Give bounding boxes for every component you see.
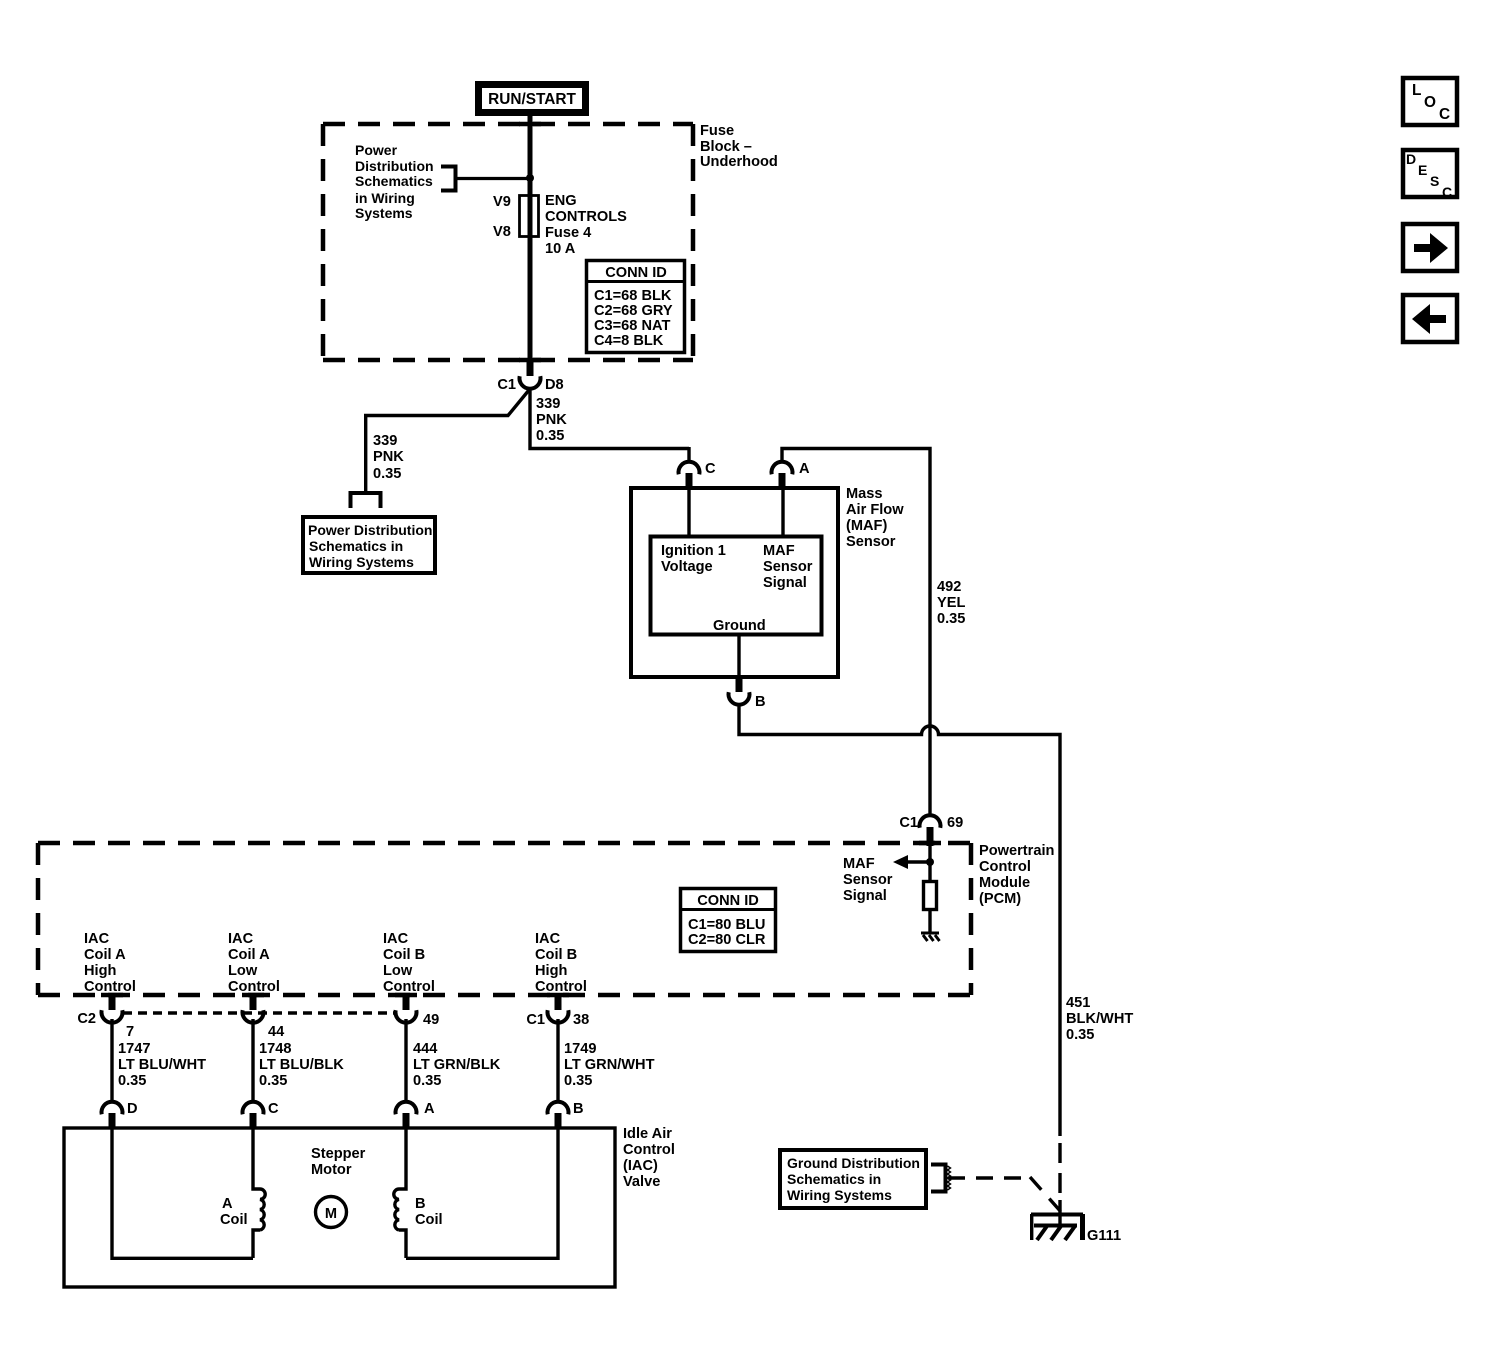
reference bracket (ground distribution): [931, 1165, 951, 1192]
signal arrow MAF Sensor Signal: [893, 855, 930, 869]
svg-text:492: 492: [937, 579, 961, 595]
connector pin A (MAF sensor): [772, 461, 810, 489]
svg-text:D: D: [1406, 151, 1416, 167]
svg-text:IAC: IAC: [84, 931, 110, 947]
svg-text:Valve: Valve: [623, 1174, 660, 1190]
svg-text:Ground Distribution: Ground Distribution: [787, 1155, 920, 1171]
reference box Power Distribution Schematics in Wiring Systems: [303, 517, 435, 573]
svg-text:Ground: Ground: [713, 618, 766, 634]
svg-text:1748: 1748: [259, 1041, 291, 1057]
svg-text:339: 339: [536, 396, 560, 412]
ground (PCM internal): [921, 933, 940, 941]
svg-text:Coil A: Coil A: [228, 947, 270, 963]
svg-text:7: 7: [126, 1024, 134, 1040]
label MAF Sensor Signal: [843, 856, 893, 904]
wire: 492 YEL from MAF pin A right and down to PCM: [782, 449, 930, 817]
MAF sensor inner block: [651, 537, 822, 635]
svg-text:IAC: IAC: [383, 931, 409, 947]
svg-text:B: B: [415, 1196, 426, 1212]
node: junction to power distribution reference: [526, 174, 534, 182]
svg-text:Control: Control: [535, 979, 587, 995]
svg-text:IAC: IAC: [228, 931, 254, 947]
svg-text:Coil B: Coil B: [383, 947, 425, 963]
reference bracket (power distribution schematics): [441, 167, 456, 191]
svg-text:B: B: [573, 1101, 584, 1117]
resistor (PCM internal): [924, 882, 937, 910]
connector pin 44 (PCM output): [243, 994, 286, 1040]
svg-text:E: E: [1418, 162, 1427, 178]
svg-text:RUN/START: RUN/START: [488, 91, 576, 108]
svg-text:MAF: MAF: [843, 856, 875, 872]
wire: 1748 LT BLU/BLK to IAC pin C: [251, 1019, 254, 1103]
destination bracket above power distribution box: [351, 493, 381, 508]
powertrain control module dashed box: [38, 843, 971, 995]
coil B (IAC stepper): [394, 1128, 443, 1258]
svg-text:Low: Low: [383, 963, 413, 979]
svg-text:Sensor: Sensor: [843, 872, 893, 888]
wire: MAF internal pin A to inner block: [781, 488, 784, 536]
svg-text:BLK/WHT: BLK/WHT: [1066, 1011, 1133, 1027]
svg-text:Wiring Systems: Wiring Systems: [787, 1187, 892, 1203]
connector pin B (IAC valve): [548, 1101, 584, 1128]
svg-text:Motor: Motor: [311, 1162, 352, 1178]
svg-text:CONN ID: CONN ID: [605, 265, 667, 281]
svg-text:Sensor: Sensor: [763, 559, 813, 575]
svg-text:Signal: Signal: [843, 888, 887, 904]
svg-text:PNK: PNK: [373, 449, 404, 465]
label 492 YEL 0.35: [937, 579, 965, 627]
svg-text:MAF: MAF: [763, 543, 795, 559]
svg-text:C: C: [705, 461, 716, 477]
svg-text:LT BLU/WHT: LT BLU/WHT: [118, 1057, 206, 1073]
svg-text:10 A: 10 A: [545, 241, 576, 257]
label 1747 LT BLU/WHT 0.35: [118, 1041, 206, 1089]
wire: IAC pin D to coil A return: [112, 1128, 253, 1258]
connector pin D (IAC valve): [102, 1101, 138, 1128]
node: MAF sensor signal junction: [926, 858, 934, 866]
wire: branch to power distribution reference bracket: [455, 177, 528, 180]
fuse block underhood dashed box: [323, 124, 693, 360]
svg-text:A: A: [799, 461, 810, 477]
svg-text:O: O: [1424, 94, 1436, 111]
svg-text:Power Distribution: Power Distribution: [308, 522, 432, 538]
wire: ignition feed from RUN/START through fuse: [528, 113, 533, 361]
connector pin B (MAF sensor): [729, 677, 766, 710]
svg-text:Control: Control: [228, 979, 280, 995]
svg-text:0.35: 0.35: [259, 1073, 287, 1089]
svg-text:451: 451: [1066, 995, 1090, 1011]
svg-text:69: 69: [947, 815, 963, 831]
label 451 BLK/WHT 0.35: [1066, 995, 1133, 1043]
label Idle Air Control (IAC) Valve: [623, 1126, 675, 1190]
svg-text:CONTROLS: CONTROLS: [545, 209, 627, 225]
svg-text:LT GRN/BLK: LT GRN/BLK: [413, 1057, 501, 1073]
svg-text:Wiring Systems: Wiring Systems: [309, 554, 414, 570]
svg-text:CONN ID: CONN ID: [697, 893, 759, 909]
svg-text:C3=68 NAT: C3=68 NAT: [594, 318, 670, 334]
svg-text:C1: C1: [497, 377, 516, 393]
IAC valve box: [64, 1128, 615, 1287]
wire: MAF internal pin C to inner block: [687, 488, 690, 536]
svg-text:Coil A: Coil A: [84, 947, 126, 963]
svg-text:0.35: 0.35: [937, 611, 965, 627]
svg-text:Low: Low: [228, 963, 258, 979]
connector C2 pin 7 (PCM output): [77, 994, 134, 1040]
wire: dash patches at stub crossings: [101, 124, 941, 995]
svg-text:Idle Air: Idle Air: [623, 1126, 672, 1142]
label IAC Coil B Low Control: [383, 931, 435, 995]
svg-text:D8: D8: [545, 377, 564, 393]
label 1749 LT GRN/WHT 0.35: [564, 1041, 655, 1089]
label IAC Coil A Low Control: [228, 931, 280, 995]
svg-text:C1: C1: [526, 1012, 545, 1028]
svg-text:C2=80 CLR: C2=80 CLR: [688, 932, 766, 948]
svg-text:IAC: IAC: [535, 931, 561, 947]
svg-text:Module: Module: [979, 875, 1030, 891]
svg-text:Powertrain: Powertrain: [979, 843, 1055, 859]
svg-text:49: 49: [423, 1012, 439, 1028]
wire: 1749 LT GRN/WHT to IAC pin B: [556, 1019, 559, 1103]
svg-text:Control: Control: [979, 859, 1031, 875]
icon back arrow: [1403, 295, 1457, 342]
wire: 444 LT GRN/BLK to IAC pin A: [404, 1019, 407, 1103]
wire: into MAF pin C: [687, 447, 690, 463]
label Powertrain Control Module (PCM): [979, 843, 1055, 907]
svg-text:C1: C1: [899, 815, 918, 831]
svg-text:Air Flow: Air Flow: [846, 502, 904, 518]
svg-text:Schematics: Schematics: [355, 173, 433, 189]
label Stepper Motor: [311, 1146, 366, 1178]
svg-text:C2=68 GRY: C2=68 GRY: [594, 303, 673, 319]
svg-text:Schematics in: Schematics in: [309, 538, 403, 554]
svg-text:M: M: [325, 1206, 337, 1222]
svg-text:(PCM): (PCM): [979, 891, 1021, 907]
svg-text:0.35: 0.35: [373, 466, 401, 482]
wire: PCM internal signal node: [928, 843, 931, 881]
label 339 PNK 0.35 (main feed): [536, 396, 567, 444]
svg-text:C: C: [268, 1101, 279, 1117]
label Mass Air Flow (MAF) Sensor: [846, 486, 904, 550]
svg-text:Coil: Coil: [415, 1212, 443, 1228]
svg-text:PNK: PNK: [536, 412, 567, 428]
svg-text:C4=8 BLK: C4=8 BLK: [594, 333, 664, 349]
MAF sensor outer box: [631, 488, 838, 677]
connector pin 49 (PCM output): [396, 994, 440, 1028]
label Fuse Block - Underhood: [700, 123, 778, 170]
svg-text:(MAF): (MAF): [846, 518, 887, 534]
svg-text:0.35: 0.35: [1066, 1027, 1094, 1043]
wire: dashed section of 451 BLK/WHT to G111: [1058, 1143, 1061, 1203]
svg-text:0.35: 0.35: [118, 1073, 146, 1089]
wire: 1747 LT BLU/WHT to IAC pin D: [110, 1019, 113, 1103]
svg-text:A: A: [222, 1196, 233, 1212]
svg-text:High: High: [84, 963, 117, 979]
connector C1 pin D8 (fuse block output): [497, 361, 563, 393]
svg-text:YEL: YEL: [937, 595, 965, 611]
svg-text:Control: Control: [623, 1142, 675, 1158]
svg-text:Underhood: Underhood: [700, 154, 778, 170]
svg-text:Coil B: Coil B: [535, 947, 577, 963]
svg-text:High: High: [535, 963, 568, 979]
svg-text:Control: Control: [84, 979, 136, 995]
fuse F4 ENG CONTROLS 10A: [520, 196, 539, 237]
svg-text:Fuse: Fuse: [700, 123, 734, 139]
svg-text:1747: 1747: [118, 1041, 150, 1057]
svg-text:0.35: 0.35: [536, 428, 564, 444]
svg-text:0.35: 0.35: [413, 1073, 441, 1089]
svg-text:C1=80 BLU: C1=80 BLU: [688, 917, 765, 933]
svg-text:Voltage: Voltage: [661, 559, 713, 575]
label 444 LT GRN/BLK 0.35: [413, 1041, 501, 1089]
svg-text:G111: G111: [1087, 1228, 1121, 1244]
svg-text:444: 444: [413, 1041, 438, 1057]
svg-text:B: B: [755, 694, 766, 710]
connector pin C (MAF sensor): [679, 461, 717, 489]
motor M (stepper): [316, 1197, 347, 1228]
wire: MAF internal ground to pin B: [737, 635, 740, 677]
svg-text:LT BLU/BLK: LT BLU/BLK: [259, 1057, 344, 1073]
svg-text:Sensor: Sensor: [846, 534, 896, 550]
icon LOC: [1403, 78, 1457, 125]
svg-text:38: 38: [573, 1012, 589, 1028]
svg-text:44: 44: [268, 1024, 285, 1040]
svg-text:V9: V9: [493, 194, 511, 210]
svg-text:Fuse 4: Fuse 4: [545, 225, 592, 241]
icon forward arrow: [1403, 224, 1457, 271]
svg-text:Signal: Signal: [763, 575, 807, 591]
wire: resistor to internal ground: [928, 910, 931, 933]
svg-text:C: C: [1442, 184, 1452, 200]
svg-text:ENG: ENG: [545, 193, 577, 209]
svg-text:A: A: [424, 1101, 435, 1117]
reference box Ground Distribution Schematics in Wiring Systems: [780, 1150, 926, 1208]
svg-text:Power: Power: [355, 142, 398, 158]
CONN ID table (PCM): [680, 889, 776, 952]
svg-text:339: 339: [373, 433, 397, 449]
svg-text:C2: C2: [77, 1011, 96, 1027]
label ENG CONTROLS Fuse 4 10 A: [545, 193, 627, 257]
svg-text:1749: 1749: [564, 1041, 596, 1057]
svg-text:C1=68 BLK: C1=68 BLK: [594, 288, 672, 304]
svg-text:V8: V8: [493, 224, 511, 240]
label Power Distribution Schematics in Wiring Systems (fuse block): [355, 142, 434, 221]
label IAC Coil B High Control: [535, 931, 587, 995]
svg-text:C: C: [1439, 106, 1450, 123]
label 1748 LT BLU/BLK 0.35: [259, 1041, 344, 1089]
svg-text:Stepper: Stepper: [311, 1146, 366, 1162]
wire: dashed lead from ground distribution to G111: [948, 1177, 1062, 1213]
power source RUN/START: [479, 85, 586, 113]
icon DESC: [1403, 150, 1457, 200]
svg-text:Distribution: Distribution: [355, 158, 434, 174]
connector link dashed line (C2 pins 7-44-49): [123, 1011, 396, 1015]
ground G111: [1031, 1200, 1083, 1240]
label 339 PNK 0.35 (branch): [373, 433, 404, 482]
coil A (IAC stepper): [220, 1128, 265, 1258]
svg-text:Coil: Coil: [220, 1212, 248, 1228]
connector C1 pin 38 (PCM output): [526, 994, 589, 1028]
svg-text:Control: Control: [383, 979, 435, 995]
svg-text:in Wiring: in Wiring: [355, 190, 415, 206]
CONN ID table (fuse block underhood): [586, 261, 685, 353]
svg-text:Ignition 1: Ignition 1: [661, 543, 726, 559]
svg-text:LT GRN/WHT: LT GRN/WHT: [564, 1057, 655, 1073]
connector C1 pin 69 (PCM input): [899, 815, 963, 846]
connector pin C (IAC valve): [243, 1101, 280, 1128]
svg-text:D: D: [127, 1101, 138, 1117]
wire: 451 BLK/WHT from MAF pin B right (hop over 492 YEL) and down: [739, 704, 1060, 1136]
wire: IAC pin B to coil B return: [406, 1128, 558, 1258]
svg-text:S: S: [1430, 173, 1439, 189]
svg-text:Mass: Mass: [846, 486, 883, 502]
svg-text:Schematics in: Schematics in: [787, 1171, 881, 1187]
wire: 339 PNK branch diagonal to power distribution reference: [366, 390, 529, 491]
connector pin A (IAC valve): [396, 1101, 436, 1128]
svg-text:(IAC): (IAC): [623, 1158, 658, 1174]
svg-text:Systems: Systems: [355, 205, 413, 221]
svg-text:Block –: Block –: [700, 139, 752, 155]
svg-text:0.35: 0.35: [564, 1073, 592, 1089]
wire: 339 PNK from C1 D8 down and right to MAF pin C: [530, 388, 689, 449]
label IAC Coil A High Control: [84, 931, 136, 995]
svg-text:L: L: [1412, 82, 1421, 99]
